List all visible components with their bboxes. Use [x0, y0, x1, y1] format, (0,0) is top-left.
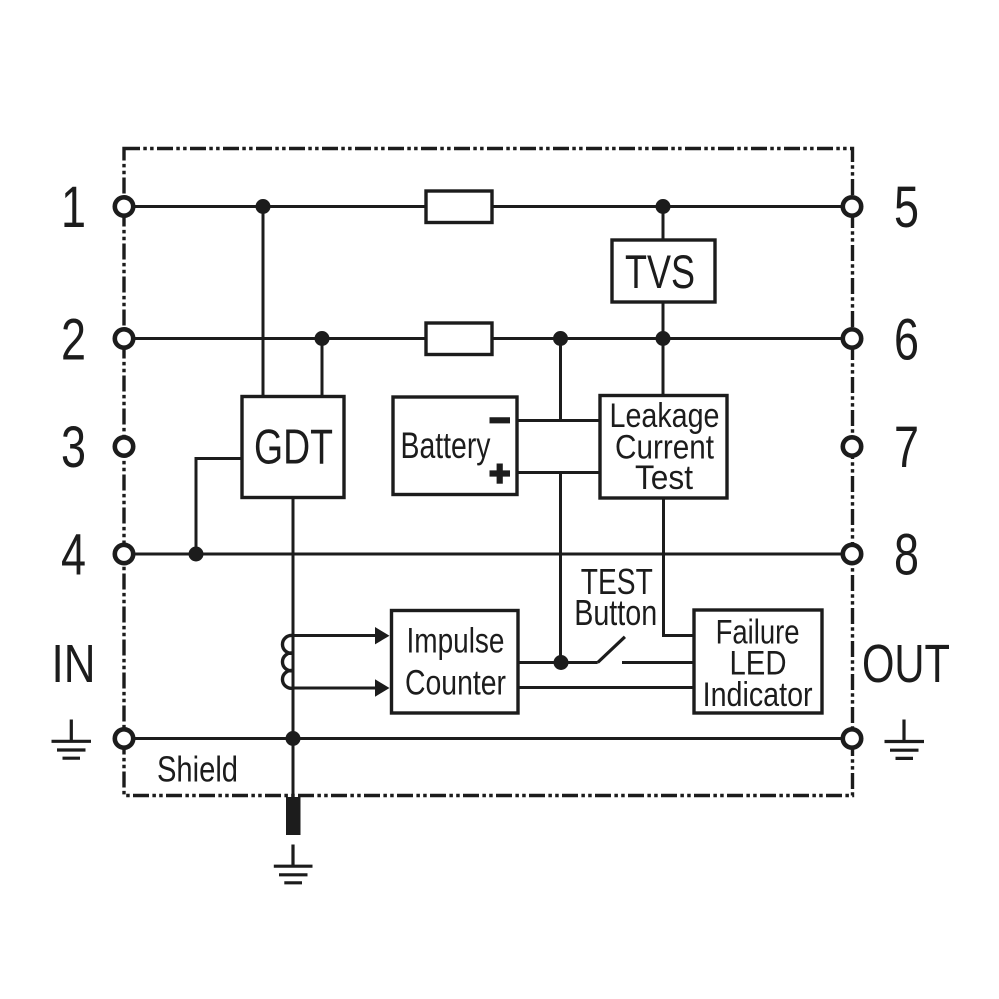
wire GDT left lead	[196, 459, 242, 555]
svg-text:2: 2	[61, 307, 86, 372]
wire line 4 (terminal 4 to 8)	[133, 553, 843, 556]
wire coil to Impulse Counter top arrow	[293, 634, 376, 637]
wire battery plus to Leakage Current Test	[517, 471, 600, 474]
Failure LED Indicator box	[694, 610, 822, 713]
svg-text:7: 7	[894, 415, 919, 480]
Leakage Current Test box	[600, 396, 727, 499]
arrowhead bottom	[375, 679, 390, 696]
wire shield to earth bar	[292, 739, 295, 798]
terminal 5	[843, 197, 861, 215]
wire battery plus rail down to TEST switch	[559, 473, 562, 663]
wire shield line	[133, 737, 843, 740]
svg-text:1: 1	[61, 175, 86, 240]
svg-text:Impulse: Impulse	[407, 621, 505, 660]
wire GDT bottom to shield line	[292, 498, 295, 739]
GDT box	[242, 397, 344, 498]
junction node on line 2 at TVS branch	[656, 331, 671, 346]
wire line 1 (terminal 1 to 5)	[133, 205, 843, 208]
svg-text:5: 5	[894, 175, 919, 240]
Battery box	[393, 397, 517, 495]
Impulse Counter box	[392, 611, 519, 714]
svg-text:4: 4	[61, 523, 86, 588]
wire TVS to line 2	[662, 302, 665, 339]
junction node at TEST switch	[554, 655, 569, 670]
svg-text:TVS: TVS	[625, 245, 695, 298]
ground symbol IN	[52, 720, 92, 759]
junction node on line 2 at GDT branch	[315, 331, 330, 346]
battery minus symbol	[490, 417, 511, 423]
terminal 8	[843, 545, 861, 563]
wire line 2 to Leakage Current Test	[662, 339, 665, 396]
terminal shield out	[843, 729, 861, 747]
junction node on line 4 at GDT lead	[189, 547, 204, 562]
wire battery minus to Leakage Current Test	[517, 419, 600, 422]
junction node on line 1 at TVS branch	[656, 199, 671, 214]
wire Impulse Counter to TEST switch	[518, 661, 598, 664]
wire GDT branch from line 2	[321, 339, 324, 397]
arrowhead top	[375, 627, 390, 644]
svg-text:Indicator: Indicator	[703, 676, 813, 714]
svg-text:GDT: GDT	[254, 421, 333, 475]
svg-text:Shield: Shield	[157, 749, 238, 790]
terminal 1	[115, 197, 133, 215]
wire line 2 to battery minus rail	[559, 339, 562, 421]
svg-text:OUT: OUT	[862, 634, 950, 694]
resistor R1 on line 1	[426, 191, 492, 223]
junction node on line 2 at battery branch	[553, 331, 568, 346]
wire line 2 (terminal 2 to 6)	[133, 337, 843, 340]
terminal 3	[115, 437, 133, 455]
wire TVS branch from line 1	[662, 207, 665, 241]
terminal 4	[115, 545, 133, 563]
coil sensing coil	[282, 635, 293, 688]
battery plus symbol	[490, 464, 511, 484]
svg-text:Counter: Counter	[405, 663, 506, 702]
junction node on shield line	[286, 731, 301, 746]
wire Impulse Counter to Failure LED Indicator	[518, 686, 694, 689]
resistor R2 on line 2	[426, 323, 492, 355]
svg-text:Button: Button	[574, 592, 657, 633]
svg-text:Battery: Battery	[401, 425, 491, 466]
wire TEST switch to Failure LED Indicator	[622, 661, 694, 664]
terminal 6	[843, 329, 861, 347]
ground symbol OUT	[885, 720, 925, 759]
svg-text:3: 3	[61, 415, 86, 480]
terminal 7	[843, 437, 861, 455]
terminal 2	[115, 329, 133, 347]
svg-text:8: 8	[894, 523, 919, 588]
wire GDT branch from line 1	[262, 207, 265, 397]
svg-text:Test: Test	[635, 459, 694, 497]
junction node on line 1 at GDT branch	[256, 199, 271, 214]
TEST switch blade	[598, 637, 625, 663]
svg-text:6: 6	[894, 307, 919, 372]
wire coil to Impulse Counter bottom arrow	[293, 687, 376, 690]
wire Leakage Current Test to Failure LED Indicator	[664, 498, 695, 636]
ground symbol earth	[274, 845, 313, 883]
TVS box	[612, 240, 715, 302]
enclosure dashed border	[124, 149, 853, 796]
earth bar below shield	[286, 797, 301, 835]
terminal shield in	[115, 729, 133, 747]
svg-text:IN: IN	[52, 634, 96, 694]
